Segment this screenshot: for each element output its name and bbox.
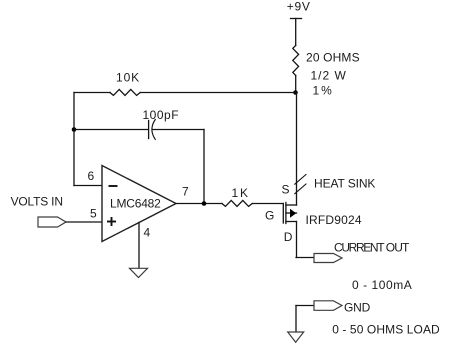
wire: down to ground symbol bbox=[295, 306, 297, 333]
wire: feedback top right segment bbox=[140, 92, 296, 94]
heat sink symbol bbox=[295, 175, 306, 194]
wire: feedback top left segment bbox=[74, 92, 110, 94]
wire: source vertical from +9V node bbox=[296, 93, 298, 206]
svg-text:LMC6482: LMC6482 bbox=[110, 197, 161, 211]
connector VOLTS IN bbox=[38, 217, 66, 227]
wire: capacitor right lead bbox=[153, 129, 205, 131]
wire: capacitor branch down to output node bbox=[203, 130, 205, 204]
power symbol +9V bar bbox=[291, 18, 302, 20]
wire: left feedback vertical bbox=[73, 93, 75, 186]
svg-text:7: 7 bbox=[182, 184, 189, 198]
wire: VOLTS IN to pin 5 bbox=[66, 221, 102, 223]
node: output junction dot bbox=[202, 201, 207, 206]
transistor Q1 IRFD9024 (P-MOSFET) bbox=[283, 203, 296, 224]
svg-text:VOLTS IN: VOLTS IN bbox=[11, 195, 63, 209]
wire: drain vertical bbox=[296, 222, 298, 258]
resistor 20 OHMS (vertical) bbox=[293, 45, 299, 75]
svg-text:0 - 100mA: 0 - 100mA bbox=[352, 278, 412, 292]
svg-text:IRFD9024: IRFD9024 bbox=[306, 213, 362, 227]
svg-text:D: D bbox=[284, 230, 293, 244]
svg-text:HEAT SINK: HEAT SINK bbox=[314, 176, 375, 190]
svg-text:100pF: 100pF bbox=[143, 108, 180, 122]
svg-text:S: S bbox=[282, 183, 290, 197]
svg-text:GND: GND bbox=[344, 300, 371, 314]
wire: op-amp output to 1K bbox=[176, 203, 222, 205]
svg-text:1K: 1K bbox=[232, 186, 250, 200]
svg-text:G: G bbox=[265, 208, 274, 222]
wire: +9V bar to resistor top bbox=[295, 19, 297, 46]
ground symbol (op-amp pin 4) bbox=[130, 268, 148, 277]
resistor 10K bbox=[110, 89, 140, 95]
svg-text:1%: 1% bbox=[313, 83, 334, 97]
connector GND bbox=[314, 301, 342, 311]
svg-text:6: 6 bbox=[88, 169, 95, 183]
svg-text:CURRENT: CURRENT bbox=[334, 240, 385, 254]
ground symbol (load return) bbox=[288, 332, 304, 342]
wire: capacitor left lead bbox=[74, 129, 148, 131]
wire: 1K to gate bbox=[252, 203, 283, 205]
capacitor 100pF bbox=[149, 120, 156, 140]
wire: GND connector lead bbox=[296, 305, 314, 307]
connector CURRENT OUT bbox=[314, 254, 342, 263]
svg-text:5: 5 bbox=[90, 207, 97, 221]
wire: drain to CURRENT OUT connector bbox=[296, 257, 314, 259]
svg-text:+9V: +9V bbox=[287, 0, 311, 14]
node: feedback branch dot bbox=[72, 127, 77, 132]
wire: resistor bottom to source node bbox=[295, 76, 297, 93]
svg-text:OUT: OUT bbox=[386, 240, 410, 254]
svg-text:0 - 50 OHMS LOAD: 0 - 50 OHMS LOAD bbox=[332, 323, 440, 337]
resistor 1K bbox=[222, 200, 252, 206]
wire: inverting input (pin 6) bbox=[74, 185, 102, 187]
svg-text:1/2 W: 1/2 W bbox=[311, 68, 347, 82]
op-amp U1 LMC6482 bbox=[102, 166, 176, 242]
svg-text:4: 4 bbox=[144, 226, 151, 240]
svg-text:10K: 10K bbox=[116, 71, 140, 85]
node: junction dot at source rail bbox=[293, 90, 298, 95]
wire: pin 4 down to ground bbox=[138, 223, 140, 269]
svg-text:20 OHMS: 20 OHMS bbox=[306, 51, 360, 65]
